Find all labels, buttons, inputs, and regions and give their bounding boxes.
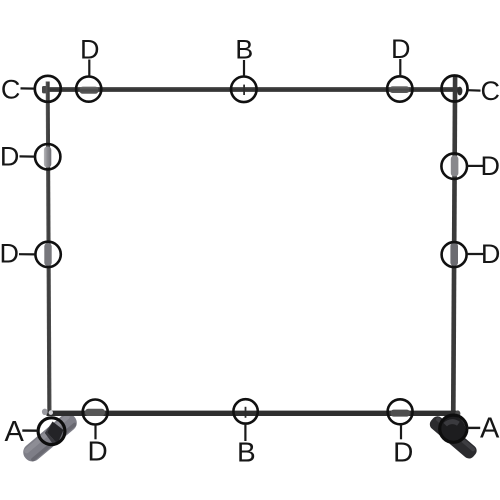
telescoping sleeve left D2 — [44, 243, 51, 266]
ring B top — [231, 77, 257, 103]
right foot base plate — [427, 414, 479, 461]
top crossbar pole — [44, 87, 460, 92]
telescoping sleeve right D2 — [450, 243, 458, 267]
svg-text:D: D — [0, 238, 19, 268]
bottom bar right end cap — [455, 410, 460, 416]
svg-text:B: B — [237, 437, 256, 468]
telescoping sleeve bottom-right D — [391, 410, 411, 417]
svg-text:A: A — [5, 416, 25, 448]
ring B bottom — [233, 399, 257, 423]
ring D top-right — [387, 76, 412, 101]
ring D top-left — [76, 77, 101, 102]
svg-text:D: D — [391, 34, 411, 64]
telescoping sleeve bottom-left D — [85, 409, 105, 416]
right foot knob highlight — [444, 419, 460, 426]
leader line label A right — [467, 427, 480, 429]
svg-text:C: C — [1, 74, 21, 104]
svg-text:C: C — [481, 76, 500, 106]
leader line label D left lower — [19, 253, 35, 255]
center pin top B joint — [243, 85, 245, 95]
leader line label D top-left — [88, 60, 90, 77]
left foot knob shadow edge — [45, 422, 58, 446]
leader line label D left upper — [20, 155, 35, 157]
leader line label D bottom-right — [400, 425, 402, 440]
bottom bar left end cap — [42, 409, 48, 415]
svg-text:D: D — [481, 239, 500, 269]
right upright pole — [451, 77, 458, 417]
left upright pole — [46, 82, 52, 415]
telescoping sleeve top-right D — [390, 86, 410, 93]
center pin bottom B joint — [245, 407, 247, 418]
ring A left foot — [38, 418, 65, 445]
ring D left upper — [35, 144, 60, 169]
leader line label C top-right — [468, 89, 481, 92]
svg-text:D: D — [393, 436, 413, 467]
ring D right upper — [441, 153, 467, 179]
leader line label D right lower — [467, 253, 484, 255]
svg-text:D: D — [80, 34, 100, 64]
top bar right end cap — [457, 87, 462, 96]
left foot base plate — [20, 410, 81, 465]
svg-text:D: D — [480, 151, 500, 181]
telescoping sleeve top-left D — [80, 87, 99, 94]
leader line label D bottom-left — [94, 425, 96, 440]
ring C top-right corner — [442, 76, 468, 102]
svg-text:D: D — [87, 436, 107, 467]
bottom crossbar pole — [47, 411, 457, 416]
right foot knob — [440, 416, 466, 442]
bottom-left joint highlight — [49, 410, 53, 415]
ring C top-left corner — [35, 76, 61, 102]
top bar left end fitting — [42, 86, 49, 93]
ring A right foot — [440, 415, 467, 442]
telescoping sleeve right D1 — [451, 156, 459, 177]
ring D bottom-left — [83, 400, 108, 425]
svg-text:B: B — [235, 34, 253, 64]
ring D bottom-right — [388, 399, 413, 424]
ring D left lower — [35, 242, 60, 267]
leader line label A left — [22, 429, 38, 432]
leader line label C top-left — [21, 87, 35, 89]
leader line label D right upper — [467, 165, 483, 167]
leader line label B top — [243, 60, 245, 76]
leader line label D top-right — [399, 59, 401, 76]
svg-text:A: A — [480, 413, 500, 445]
svg-text:D: D — [0, 141, 19, 171]
leader line label B bottom — [244, 424, 246, 441]
ring D right lower — [442, 242, 467, 267]
left foot knob (dark wedge) — [47, 422, 64, 445]
telescoping sleeve left D1 — [44, 147, 51, 168]
